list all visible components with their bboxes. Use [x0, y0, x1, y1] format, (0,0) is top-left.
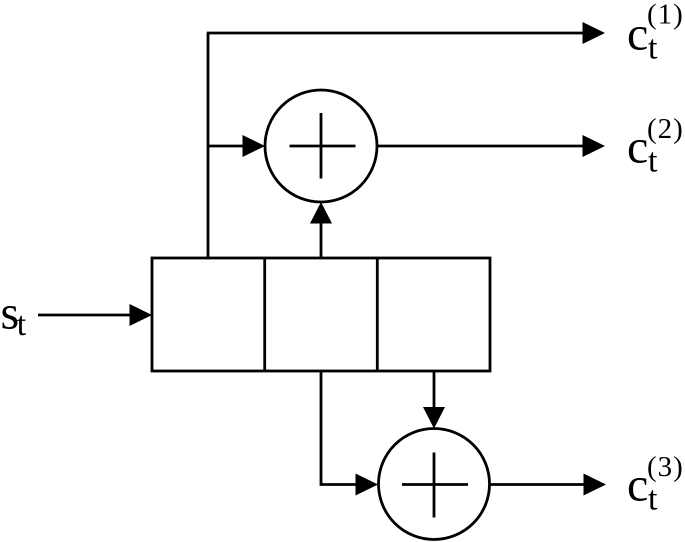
svg-text:t: t	[17, 306, 27, 343]
wire: top adder output line toward c_t^(2)	[377, 145, 584, 148]
label s_t (input signal)	[1, 287, 27, 344]
arrowhead: into top adder left input	[243, 135, 266, 157]
arrowhead: output c_t^(1)	[583, 22, 606, 44]
wire: from register cell 2 down and right to bottom adder left input	[321, 371, 357, 485]
wire: vertical feed from register cell 1 up to top output line	[207, 33, 210, 258]
register cell divider 1	[263, 258, 266, 371]
plus sign inside adder U1	[290, 113, 356, 179]
wire: branch from vertical feed into top adder left input	[208, 145, 244, 148]
wire: from register cell 2 up to top adder bottom input	[320, 222, 323, 258]
wire: bottom adder output line toward c_t^(3)	[490, 483, 584, 486]
svg-text:(3): (3)	[647, 451, 684, 483]
svg-text:c: c	[627, 121, 648, 174]
wire: from register cell 3 down to bottom adder top input	[433, 371, 436, 408]
label c_t^(2) (output 2)	[627, 113, 684, 180]
svg-text:(2): (2)	[647, 113, 684, 145]
svg-text:t: t	[648, 30, 658, 67]
register cell divider 2	[376, 258, 379, 371]
arrowhead: output c_t^(3)	[584, 474, 607, 496]
adder U1: top modulo-2 adder circle	[265, 90, 377, 202]
wire: input line from s_t to register	[38, 314, 131, 317]
arrowhead: output c_t^(2)	[583, 135, 606, 157]
arrowhead: into top adder bottom input	[310, 202, 332, 224]
shift register box	[152, 258, 490, 371]
svg-text:c: c	[627, 459, 648, 512]
plus sign inside adder U2	[402, 453, 468, 518]
svg-text:(1): (1)	[647, 0, 684, 31]
svg-text:t: t	[648, 481, 658, 518]
arrowhead: into bottom adder left input	[356, 474, 379, 496]
arrowhead: input into register	[130, 304, 153, 326]
wire: top horizontal output line toward c_t^(1)	[207, 32, 584, 35]
adder U2: bottom modulo-2 adder circle	[379, 429, 490, 540]
svg-text:c: c	[627, 8, 648, 61]
label c_t^(3) (output 3)	[627, 451, 684, 518]
label c_t^(1) (output 1)	[627, 0, 684, 67]
arrowhead: into bottom adder top input	[423, 407, 445, 429]
svg-text:t: t	[648, 143, 658, 180]
